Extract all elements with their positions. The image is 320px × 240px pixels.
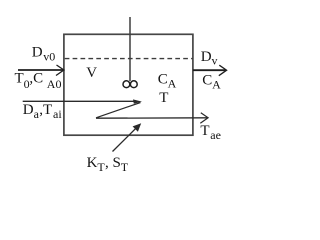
svg-text:K: K — [87, 155, 98, 171]
svg-text:T: T — [200, 123, 209, 139]
inlet flow arrow Dv0 — [18, 65, 64, 76]
svg-text:v0: v0 — [43, 50, 55, 64]
label Dv outlet — [201, 49, 218, 68]
label T0,CA0 — [15, 70, 62, 91]
svg-text:, S: , S — [105, 155, 121, 171]
heating coil diagonal segment — [96, 103, 141, 118]
stirrer shaft — [129, 17, 131, 81]
svg-text:C: C — [158, 72, 168, 88]
svg-text:A: A — [168, 77, 177, 91]
svg-text:A0: A0 — [47, 77, 62, 91]
svg-text:v: v — [212, 54, 218, 68]
svg-text:ae: ae — [210, 128, 221, 142]
outlet flow arrow Dv — [193, 65, 227, 76]
pointer arrow from KT,ST label to coil — [113, 123, 142, 151]
svg-text:,T: ,T — [39, 102, 52, 118]
svg-text:D: D — [23, 102, 34, 118]
svg-text:,C: ,C — [29, 70, 43, 86]
svg-text:A: A — [212, 78, 221, 92]
svg-text:ai: ai — [53, 107, 62, 121]
stirrer impeller circles — [123, 81, 137, 88]
liquid level dashed line — [65, 58, 193, 60]
label Dv0 — [32, 44, 55, 63]
svg-text:D: D — [201, 49, 212, 65]
label CA outlet — [202, 73, 221, 92]
svg-text:T: T — [15, 70, 24, 86]
svg-text:V: V — [86, 65, 97, 81]
label Tae — [200, 123, 221, 142]
heating medium inlet line with solid arrowhead — [23, 99, 142, 103]
svg-text:T: T — [159, 90, 168, 106]
svg-text:C: C — [202, 73, 212, 89]
tank vessel rectangle — [64, 34, 193, 135]
label KT, ST — [87, 155, 129, 174]
label CA inside tank — [158, 72, 177, 91]
label Da,Tai — [23, 102, 63, 121]
svg-text:T: T — [121, 160, 129, 174]
svg-text:D: D — [32, 44, 43, 60]
heating medium outlet line with chevron arrow — [96, 113, 208, 124]
